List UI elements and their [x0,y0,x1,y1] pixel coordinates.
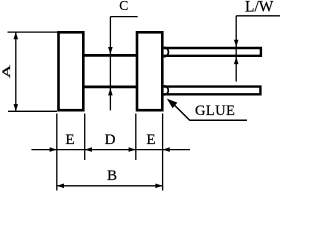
dim D right-pointing arrowhead [129,147,136,152]
dim B left arrowhead [57,184,64,189]
dim E D E line [31,149,190,151]
dim C down arrowhead [108,47,113,54]
svg-text:C: C [119,0,128,13]
svg-text:GLUE: GLUE [195,103,235,119]
dim A down arrowhead [14,104,19,111]
extension line v4 right flange right [162,114,164,191]
dim L/W down arrowhead [234,40,239,47]
svg-text:A: A [0,64,13,78]
dim E1 right-pointing arrowhead [50,147,57,152]
dim A top extension line [8,31,59,33]
svg-text:D: D [105,132,116,148]
svg-text:E: E [65,132,74,148]
dim C up arrowhead [108,88,113,95]
extension line v1 left flange left [56,114,58,191]
extension line v2 left flange right [84,114,86,161]
GLUE leader arrowhead [167,99,178,109]
core bottom line [83,86,138,89]
dim D left-pointing arrowhead [85,147,92,152]
dim A line [15,32,17,111]
lower lead bump [164,86,169,95]
dim C line [109,17,111,111]
dim A bottom extension line [8,110,57,112]
left flange [59,32,84,110]
svg-text:E: E [146,132,155,148]
GLUE leader line [175,105,247,120]
extension line v3 right flange left [135,114,137,161]
dim L/W up arrowhead [234,57,239,64]
dim L/W reference line [236,15,280,17]
dim B line [57,185,163,187]
top lead [164,48,261,56]
svg-text:L/W: L/W [245,0,274,16]
core top line [83,54,138,57]
dim A up arrowhead [14,32,19,39]
top lead bump [164,47,169,56]
svg-text:B: B [107,168,117,184]
dim B right arrowhead [155,184,162,189]
dim C reference line [110,16,137,18]
lower lead [164,87,261,95]
right flange [137,32,162,110]
dim E2 left-pointing arrowhead [163,147,170,152]
dim L/W line [235,16,237,82]
